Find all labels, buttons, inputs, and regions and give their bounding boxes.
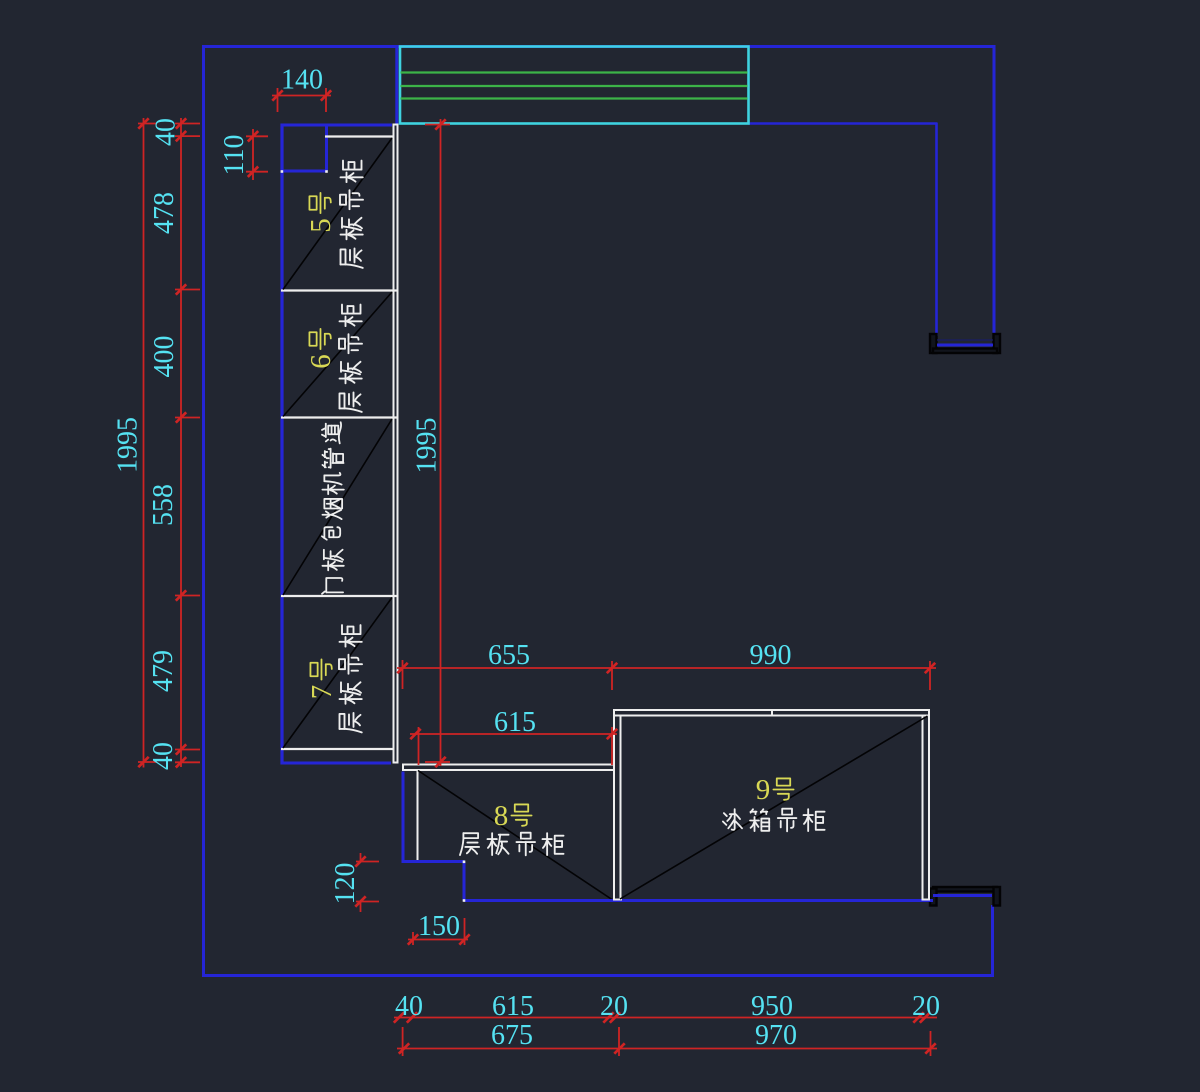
- node diagonal cabinet 7: [283, 598, 392, 749]
- node diagonal cabinet 9: [620, 716, 928, 899]
- node label cabinet5 number: [305, 193, 337, 233]
- wire left wall: [202, 46, 205, 978]
- node label cabinet7 name: [339, 625, 362, 732]
- node divider 5/6: [281, 289, 399, 291]
- svg-text:479: 479: [148, 650, 179, 692]
- wire top wall: [202, 45, 996, 48]
- node window top-right: [930, 334, 937, 353]
- svg-text:110: 110: [219, 135, 250, 176]
- wire right wall upper: [993, 47, 996, 337]
- svg-text:20: 20: [912, 991, 940, 1022]
- node dimension bottom row1: [394, 1017, 937, 1019]
- wire right wall lower: [991, 905, 994, 977]
- node label cabinet6 number: [305, 329, 337, 369]
- node label cabinet6 name: [339, 305, 362, 412]
- svg-text:8: 8: [494, 800, 509, 832]
- node dimension 140: [272, 95, 331, 97]
- node cabinet 8 left wall: [417, 770, 419, 862]
- node cabinet 9 top notch: [771, 710, 773, 716]
- node cabinet 9 box: [613, 709, 615, 900]
- node window bottom-right: [933, 887, 997, 892]
- wire blue cabinet8 step right: [463, 862, 466, 902]
- svg-text:7: 7: [306, 685, 338, 700]
- node dimension 120: [360, 853, 362, 862]
- svg-text:615: 615: [494, 707, 536, 738]
- wire notch right: [325, 125, 328, 171]
- svg-text:40: 40: [151, 118, 182, 146]
- svg-text:478: 478: [149, 192, 180, 234]
- node cabinet 8 top band: [403, 764, 615, 766]
- node diagonal duct: [283, 419, 392, 595]
- svg-text:1995: 1995: [412, 418, 443, 474]
- svg-text:400: 400: [149, 336, 180, 378]
- node divider 6/duct: [281, 416, 399, 418]
- svg-text:120: 120: [330, 863, 361, 905]
- wire green shelf line 2: [401, 85, 748, 87]
- node dimension 1995 left: [143, 118, 145, 768]
- wire green shelf line 1: [401, 71, 748, 73]
- node label cabinet9 name: [723, 809, 742, 830]
- wire wall segment above cabinets: [395, 47, 398, 125]
- svg-text:40: 40: [148, 742, 179, 770]
- node divider duct/7: [281, 595, 399, 597]
- wire green shelf line 3: [401, 97, 748, 99]
- svg-text:990: 990: [750, 640, 792, 671]
- node label cabinet8 name: [460, 833, 479, 855]
- svg-text:675: 675: [491, 1020, 533, 1051]
- wire inner right wall: [935, 123, 938, 336]
- wire bottom wall: [204, 974, 995, 977]
- wire blue bottom under cabinets: [464, 899, 933, 902]
- wire inner top wall: [748, 122, 938, 125]
- svg-text:5: 5: [305, 218, 337, 233]
- node cabinet column outline: [280, 124, 283, 765]
- node dimension left segments line: [180, 118, 182, 767]
- node diagonal cabinet 8: [418, 771, 612, 900]
- node top cabinet cyan box: [400, 47, 749, 124]
- svg-text:20: 20: [600, 991, 628, 1022]
- wire notch bottom: [282, 170, 327, 173]
- svg-text:1995: 1995: [113, 417, 144, 473]
- svg-text:950: 950: [751, 991, 793, 1022]
- node diagonal cabinet 5: [283, 138, 392, 290]
- svg-text:40: 40: [395, 991, 423, 1022]
- svg-text:140: 140: [281, 65, 323, 96]
- node dimension 150: [408, 939, 468, 941]
- node dimension bottom row2: [397, 1048, 937, 1050]
- node label cabinet7 number: [306, 659, 338, 699]
- node cabinet 7 bottom line: [281, 748, 393, 750]
- svg-text:150: 150: [418, 911, 460, 942]
- svg-text:6: 6: [305, 354, 337, 369]
- svg-text:558: 558: [148, 484, 179, 526]
- wire blue cabinet8 step bottom: [402, 860, 465, 863]
- node dimension 655 990: [397, 667, 936, 669]
- node label cabinet5 name: [340, 161, 363, 268]
- node cabinet 5 top line: [325, 135, 393, 137]
- node diagonal cabinet 6: [283, 292, 392, 417]
- node label duct name: [322, 422, 344, 594]
- svg-text:615: 615: [492, 991, 534, 1022]
- svg-text:9: 9: [756, 774, 771, 806]
- node dimension 1995 right: [440, 119, 442, 766]
- wire blue cabinet8 left: [402, 772, 405, 862]
- node dimension 110: [252, 129, 254, 180]
- node dimension 615 upper: [410, 733, 617, 735]
- svg-text:655: 655: [488, 640, 530, 671]
- svg-text:970: 970: [755, 1020, 797, 1051]
- node cabinet right double wall: [393, 124, 395, 764]
